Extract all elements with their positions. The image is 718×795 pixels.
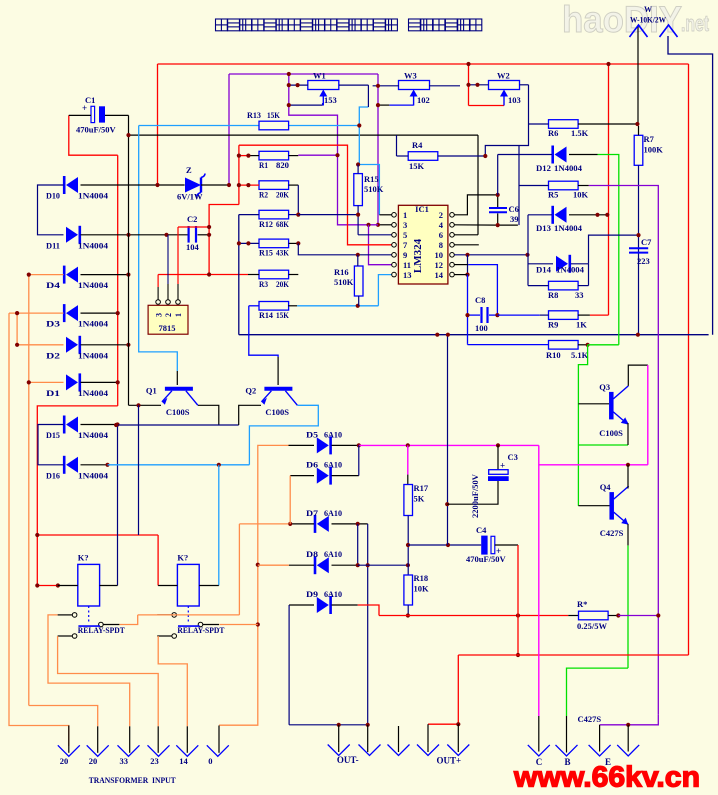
svg-text:D14: D14 bbox=[536, 265, 552, 275]
svg-text:R15: R15 bbox=[364, 174, 379, 184]
svg-text:D13: D13 bbox=[536, 223, 551, 233]
svg-text:K?: K? bbox=[177, 553, 188, 563]
svg-text:20: 20 bbox=[60, 756, 68, 766]
svg-text:1: 1 bbox=[174, 313, 183, 317]
svg-text:9: 9 bbox=[403, 250, 407, 260]
svg-text:33: 33 bbox=[120, 756, 129, 766]
svg-text:7815: 7815 bbox=[159, 323, 176, 333]
svg-text:C6: C6 bbox=[509, 204, 519, 214]
svg-text:D3: D3 bbox=[46, 319, 60, 329]
svg-text:D11: D11 bbox=[46, 240, 60, 250]
svg-text:3: 3 bbox=[403, 220, 407, 230]
svg-text:1N4004: 1N4004 bbox=[554, 163, 583, 173]
svg-text:20: 20 bbox=[89, 756, 98, 766]
svg-text:E: E bbox=[605, 757, 611, 767]
svg-text:C100S: C100S bbox=[166, 407, 190, 417]
svg-text:R3: R3 bbox=[259, 279, 268, 289]
svg-text:20K: 20K bbox=[276, 189, 289, 199]
svg-text:1N4004: 1N4004 bbox=[556, 265, 585, 275]
svg-text:1N4004: 1N4004 bbox=[78, 240, 109, 250]
svg-text:820: 820 bbox=[276, 160, 289, 170]
svg-text:R4: R4 bbox=[412, 140, 423, 150]
svg-text:5.1K: 5.1K bbox=[571, 350, 589, 360]
svg-text:C427S: C427S bbox=[600, 528, 624, 538]
svg-text:+: + bbox=[500, 461, 505, 471]
svg-text:1.5K: 1.5K bbox=[571, 128, 589, 138]
svg-text:W3: W3 bbox=[404, 71, 417, 81]
svg-text:R2: R2 bbox=[259, 189, 268, 199]
svg-text:15K: 15K bbox=[276, 310, 289, 320]
svg-text:1N4004: 1N4004 bbox=[554, 223, 583, 233]
svg-text:6: 6 bbox=[439, 230, 443, 240]
svg-text:IC1: IC1 bbox=[415, 204, 429, 214]
svg-text:100: 100 bbox=[475, 323, 488, 333]
svg-text:0.25/5W: 0.25/5W bbox=[577, 621, 607, 631]
svg-text:13: 13 bbox=[403, 270, 412, 280]
svg-text:C4: C4 bbox=[476, 525, 487, 535]
svg-text:223: 223 bbox=[637, 256, 650, 266]
svg-text:33: 33 bbox=[575, 290, 584, 300]
svg-text:C3: C3 bbox=[508, 452, 518, 462]
svg-text:23: 23 bbox=[150, 756, 159, 766]
svg-text:100K: 100K bbox=[644, 145, 664, 155]
svg-text:D6: D6 bbox=[306, 460, 318, 470]
svg-text:R16: R16 bbox=[334, 267, 349, 277]
svg-text:2: 2 bbox=[164, 313, 173, 317]
svg-text:RELAY-SPDT: RELAY-SPDT bbox=[78, 625, 125, 635]
svg-text:1N4004: 1N4004 bbox=[78, 280, 109, 290]
svg-text:Z: Z bbox=[186, 165, 192, 175]
svg-text:5: 5 bbox=[403, 230, 407, 240]
svg-text:R17: R17 bbox=[414, 483, 429, 493]
svg-text:6A10: 6A10 bbox=[324, 460, 342, 470]
svg-text:D12: D12 bbox=[536, 163, 551, 173]
svg-text:15K: 15K bbox=[409, 161, 425, 171]
svg-text:D9: D9 bbox=[306, 589, 318, 599]
svg-text:1N4004: 1N4004 bbox=[78, 319, 109, 329]
svg-text:D7: D7 bbox=[306, 508, 319, 518]
svg-text:Q2: Q2 bbox=[245, 386, 256, 396]
svg-text:0: 0 bbox=[208, 756, 212, 766]
svg-text:10: 10 bbox=[435, 250, 444, 260]
svg-text:10K: 10K bbox=[573, 190, 589, 200]
svg-text:14: 14 bbox=[179, 756, 188, 766]
svg-text:C100S: C100S bbox=[265, 407, 289, 417]
svg-text:470uF/50V: 470uF/50V bbox=[466, 554, 507, 564]
svg-text:+: + bbox=[82, 103, 87, 113]
svg-text:C427S: C427S bbox=[578, 714, 602, 724]
svg-text:510K: 510K bbox=[334, 277, 354, 287]
svg-text:W2: W2 bbox=[497, 71, 510, 81]
svg-text:6A10: 6A10 bbox=[324, 508, 342, 518]
svg-text:R1: R1 bbox=[259, 160, 268, 170]
svg-text:.net: .net bbox=[681, 11, 709, 36]
svg-text:68K: 68K bbox=[276, 219, 289, 229]
svg-text:LM324: LM324 bbox=[412, 238, 424, 273]
svg-text:R13: R13 bbox=[247, 110, 261, 120]
svg-text:R14: R14 bbox=[259, 310, 274, 320]
svg-text:R5: R5 bbox=[548, 190, 558, 200]
svg-text:6A10: 6A10 bbox=[324, 429, 342, 439]
svg-text:14: 14 bbox=[435, 270, 444, 280]
svg-text:B: B bbox=[565, 757, 571, 767]
svg-text:C2: C2 bbox=[187, 214, 197, 224]
svg-text:3: 3 bbox=[154, 313, 163, 317]
svg-text:102: 102 bbox=[417, 95, 430, 105]
svg-text:R18: R18 bbox=[414, 573, 429, 583]
svg-text:K?: K? bbox=[78, 553, 89, 563]
svg-text:R10: R10 bbox=[546, 350, 561, 360]
svg-text:11: 11 bbox=[403, 260, 411, 270]
svg-text:Q4: Q4 bbox=[600, 482, 612, 492]
svg-text:D16: D16 bbox=[46, 470, 60, 480]
svg-text:1N4004: 1N4004 bbox=[78, 191, 109, 201]
svg-text:OUT+: OUT+ bbox=[437, 756, 462, 766]
svg-text:D10: D10 bbox=[46, 191, 60, 201]
svg-text:6A10: 6A10 bbox=[324, 589, 342, 599]
svg-text:Q3: Q3 bbox=[599, 382, 610, 392]
svg-text:39: 39 bbox=[510, 214, 519, 224]
svg-text:C100S: C100S bbox=[599, 428, 623, 438]
svg-text:1K: 1K bbox=[576, 320, 587, 330]
svg-text:D15: D15 bbox=[46, 430, 60, 440]
svg-text:1N4004: 1N4004 bbox=[78, 470, 109, 480]
svg-text:R12: R12 bbox=[259, 219, 273, 229]
svg-text:D4: D4 bbox=[46, 280, 61, 290]
svg-text:6A10: 6A10 bbox=[324, 549, 342, 559]
svg-text:R*: R* bbox=[577, 599, 587, 609]
svg-text:510K: 510K bbox=[364, 184, 384, 194]
svg-text:C8: C8 bbox=[475, 295, 485, 305]
svg-text:R9: R9 bbox=[548, 320, 558, 330]
svg-text:1N4004: 1N4004 bbox=[78, 350, 109, 360]
svg-text:8: 8 bbox=[439, 240, 443, 250]
svg-text:12: 12 bbox=[435, 260, 444, 270]
svg-text:Q1: Q1 bbox=[146, 386, 157, 396]
svg-text:W1: W1 bbox=[313, 71, 326, 81]
svg-text:1: 1 bbox=[403, 210, 407, 220]
svg-text:6V/1W: 6V/1W bbox=[177, 192, 203, 202]
svg-text:1N4004: 1N4004 bbox=[78, 430, 109, 440]
svg-text:1N4004: 1N4004 bbox=[78, 388, 109, 398]
svg-text:103: 103 bbox=[508, 95, 521, 105]
svg-text:D2: D2 bbox=[46, 350, 60, 360]
svg-text:D1: D1 bbox=[46, 388, 60, 398]
svg-text:2: 2 bbox=[439, 210, 443, 220]
svg-text:W: W bbox=[644, 5, 652, 14]
svg-text:R15: R15 bbox=[259, 248, 273, 258]
svg-text:R6: R6 bbox=[548, 128, 558, 138]
svg-text:5K: 5K bbox=[414, 494, 425, 504]
svg-text:2200uF/50V: 2200uF/50V bbox=[470, 473, 480, 518]
svg-text:R7: R7 bbox=[644, 134, 655, 144]
svg-text:OUT-: OUT- bbox=[337, 755, 359, 765]
svg-text:104: 104 bbox=[186, 242, 200, 252]
svg-text:43K: 43K bbox=[276, 248, 289, 258]
svg-text:TRANSFORMER INPUT: TRANSFORMER INPUT bbox=[89, 775, 176, 785]
svg-text:D5: D5 bbox=[306, 429, 318, 439]
svg-text:RELAY-SPDT: RELAY-SPDT bbox=[177, 625, 224, 635]
svg-text:10K: 10K bbox=[414, 584, 430, 594]
svg-text:470uF/50V: 470uF/50V bbox=[76, 125, 117, 135]
svg-text:R8: R8 bbox=[548, 290, 558, 300]
svg-text:C7: C7 bbox=[641, 237, 652, 247]
svg-text:20K: 20K bbox=[276, 279, 289, 289]
svg-text:D8: D8 bbox=[306, 549, 318, 559]
svg-text:153: 153 bbox=[324, 95, 337, 105]
svg-text:15K: 15K bbox=[267, 110, 280, 120]
svg-text:W-10K/2W: W-10K/2W bbox=[630, 16, 666, 25]
svg-text:C: C bbox=[536, 757, 543, 767]
